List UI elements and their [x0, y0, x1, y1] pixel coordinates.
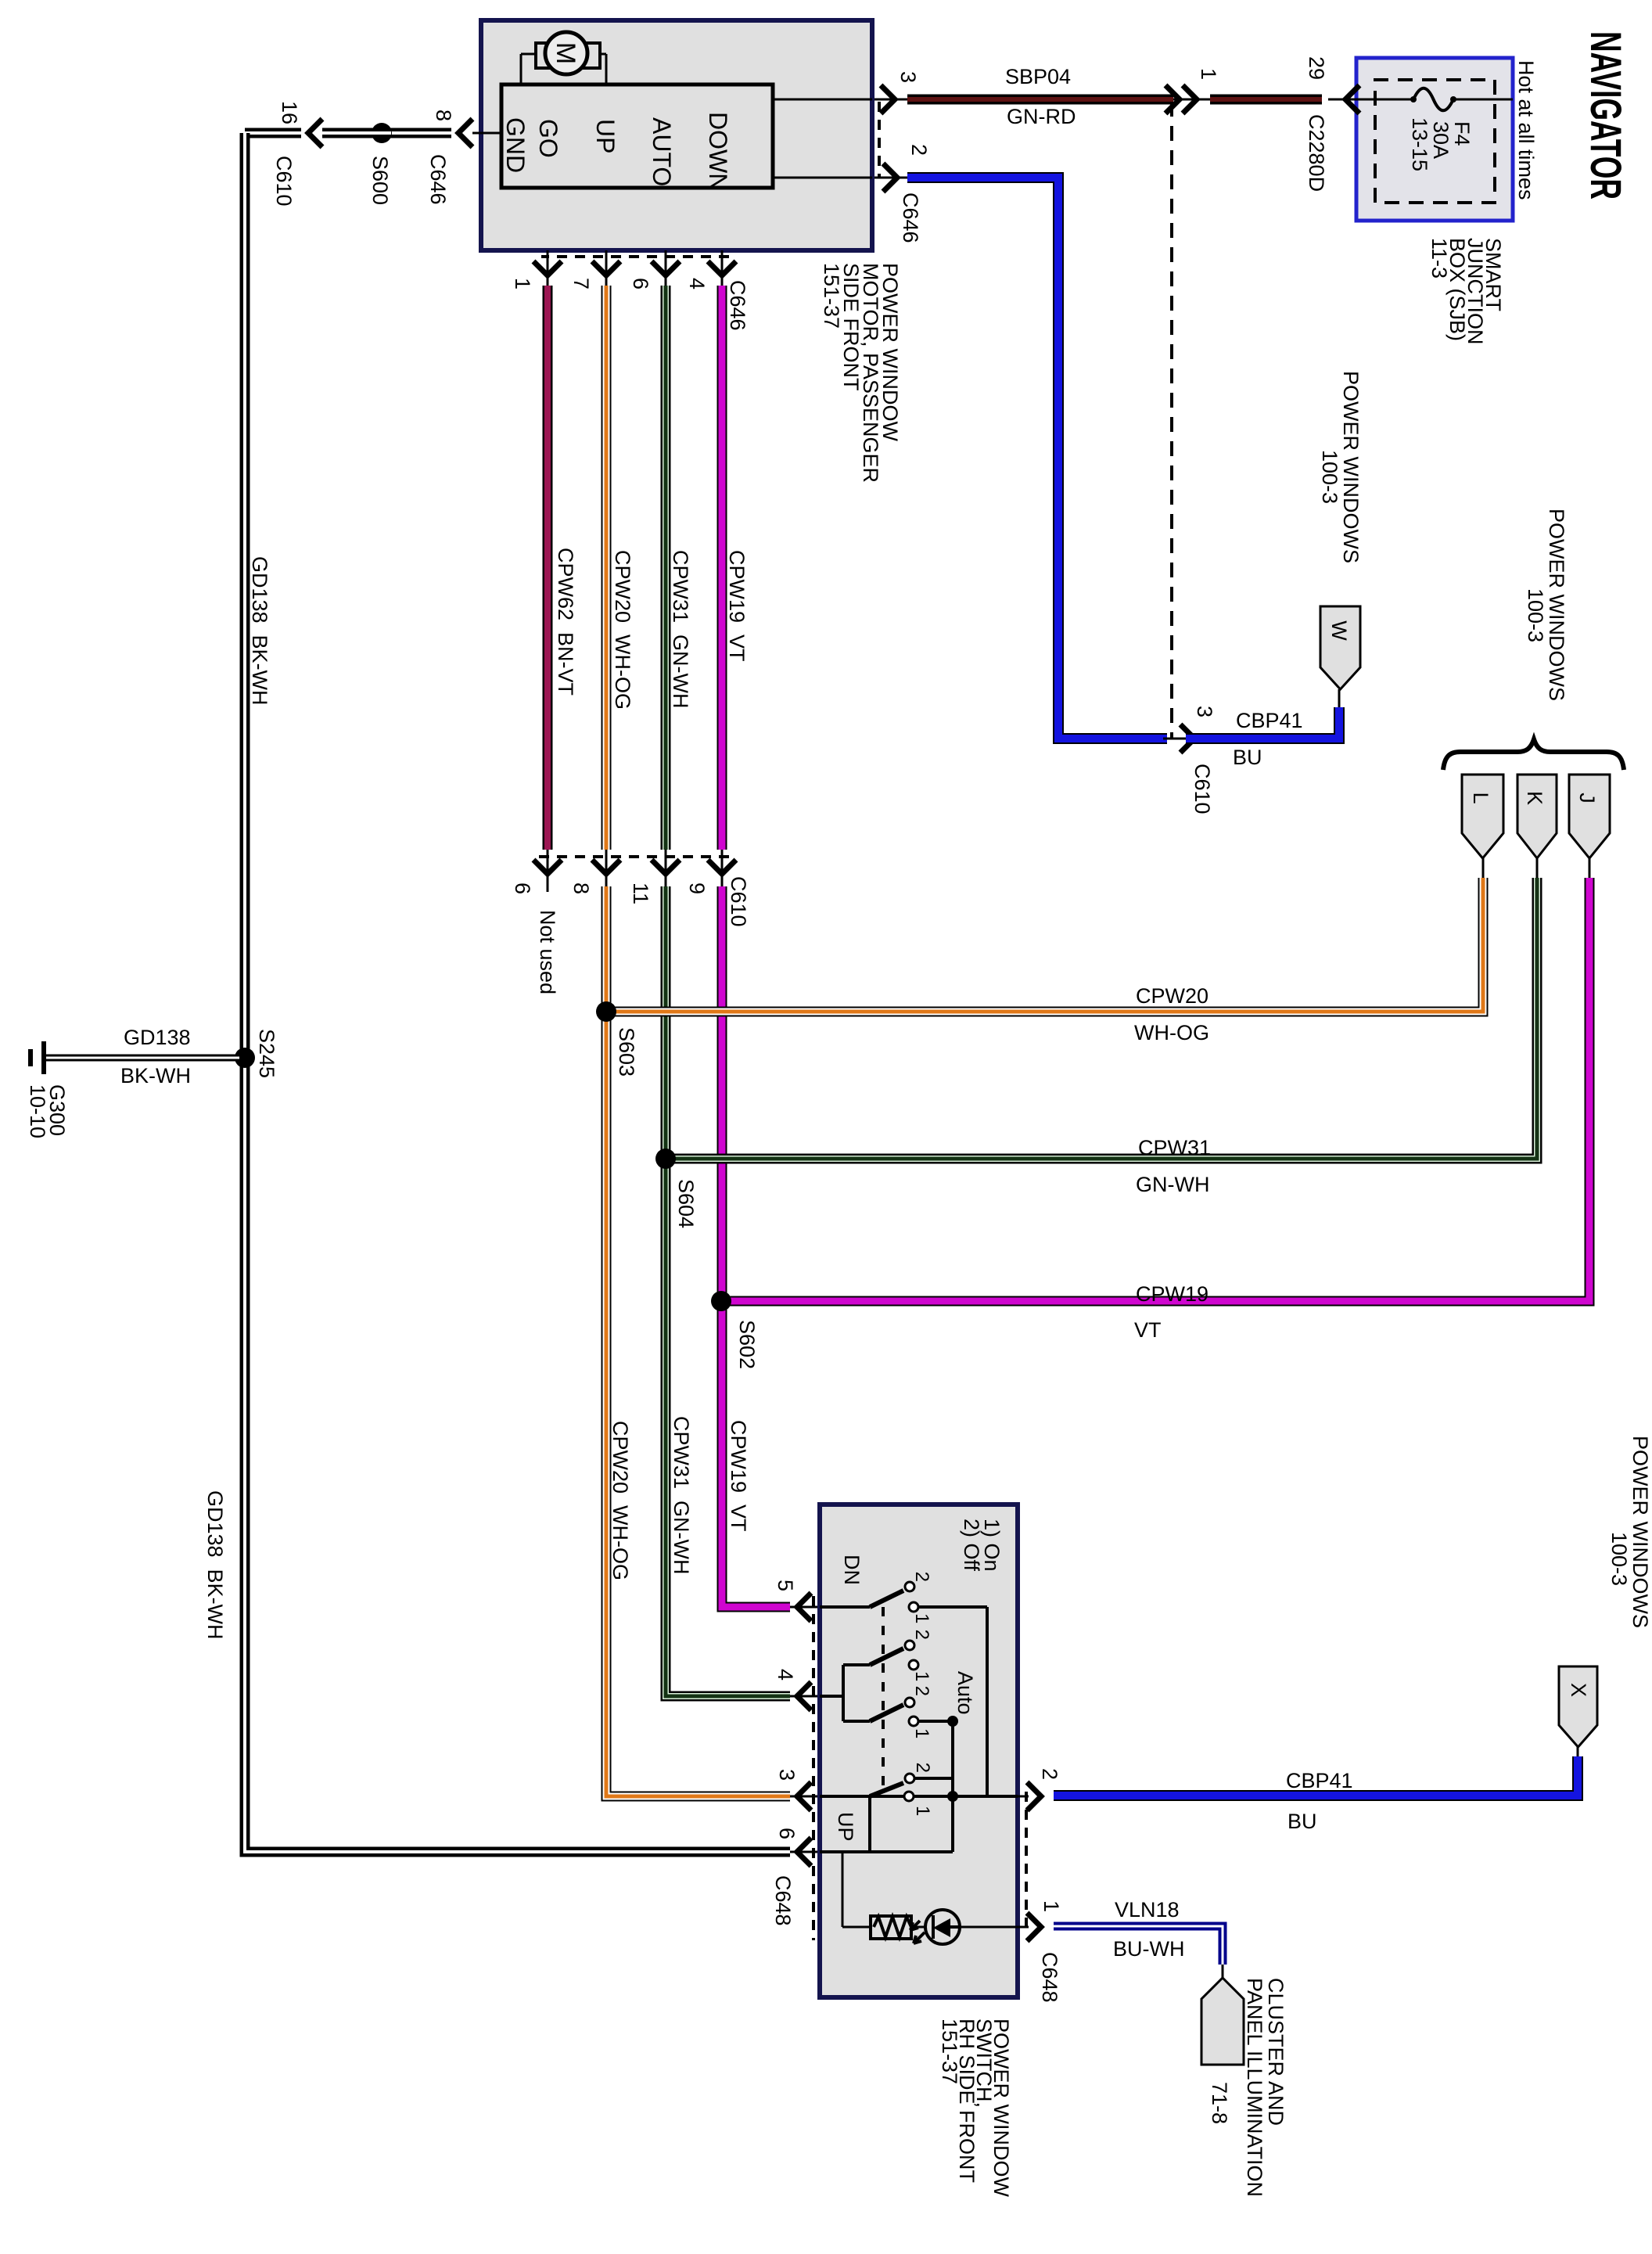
svg-text:S604: S604	[674, 1179, 698, 1228]
svg-text:GD138 BK-WH: GD138 BK-WH	[248, 556, 271, 706]
svg-text:100-3: 100-3	[1524, 588, 1547, 642]
svg-text:UP: UP	[834, 1812, 857, 1842]
svg-text:1: 1	[511, 278, 534, 289]
svg-text:16: 16	[278, 101, 301, 124]
svg-text:S603: S603	[615, 1027, 638, 1077]
svg-text:CPW31 GN-WH: CPW31 GN-WH	[669, 550, 692, 709]
svg-text:CBP41: CBP41	[1236, 709, 1303, 732]
svg-text:BU-WH: BU-WH	[1113, 1937, 1184, 1961]
svg-text:2: 2	[911, 1686, 932, 1696]
svg-text:POWER WINDOWS: POWER WINDOWS	[1545, 509, 1568, 701]
svg-text:C646: C646	[899, 192, 922, 243]
svg-text:8: 8	[432, 110, 455, 121]
svg-text:S602: S602	[735, 1320, 759, 1369]
svg-text:GN-RD: GN-RD	[1007, 105, 1076, 128]
svg-text:Not used: Not used	[536, 910, 559, 994]
svg-text:C646: C646	[726, 280, 749, 331]
svg-text:C610: C610	[727, 876, 750, 927]
svg-text:6: 6	[775, 1828, 799, 1839]
svg-text:100-3: 100-3	[1318, 450, 1341, 504]
svg-text:1: 1	[912, 1806, 933, 1816]
svg-text:K: K	[1523, 791, 1546, 805]
svg-text:CPW19 VT: CPW19 VT	[727, 1420, 750, 1532]
svg-text:GD138 BK-WH: GD138 BK-WH	[203, 1490, 227, 1640]
svg-text:71-8: 71-8	[1208, 2082, 1231, 2124]
svg-text:WH-OG: WH-OG	[1134, 1021, 1209, 1044]
svg-text:2: 2	[911, 1572, 932, 1582]
svg-text:L: L	[1469, 792, 1492, 803]
svg-text:DOWN: DOWN	[704, 112, 732, 191]
svg-text:POWER WINDOWS: POWER WINDOWS	[1339, 371, 1363, 563]
svg-text:1: 1	[1040, 1900, 1063, 1912]
svg-text:BU: BU	[1233, 746, 1262, 769]
svg-text:X: X	[1567, 1683, 1590, 1697]
svg-text:CLUSTER AND: CLUSTER AND	[1264, 1978, 1287, 2126]
svg-text:CPW19: CPW19	[1136, 1282, 1208, 1306]
svg-text:W: W	[1327, 620, 1351, 641]
svg-text:GD138: GD138	[124, 1026, 191, 1049]
svg-text:3: 3	[775, 1769, 799, 1781]
svg-text:Hot at all times: Hot at all times	[1514, 60, 1538, 200]
svg-text:C648: C648	[771, 1875, 795, 1926]
svg-text:S600: S600	[368, 156, 392, 205]
svg-text:11-3: 11-3	[1428, 238, 1451, 279]
svg-text:BK-WH: BK-WH	[120, 1064, 191, 1087]
svg-text:29: 29	[1305, 56, 1328, 80]
svg-text:SBP04: SBP04	[1005, 65, 1071, 88]
svg-text:4: 4	[774, 1669, 797, 1681]
svg-text:1: 1	[911, 1671, 932, 1681]
svg-text:10-10: 10-10	[26, 1084, 49, 1138]
svg-text:3: 3	[1193, 706, 1216, 717]
svg-text:151-37: 151-37	[938, 2019, 961, 2084]
svg-text:CPW20 WH-OG: CPW20 WH-OG	[611, 550, 634, 710]
svg-text:CPW19 VT: CPW19 VT	[725, 550, 749, 662]
svg-text:4: 4	[685, 278, 709, 289]
svg-text:UP: UP	[591, 119, 619, 153]
svg-text:2: 2	[912, 1763, 933, 1773]
svg-text:CPW62 BN-VT: CPW62 BN-VT	[554, 548, 577, 696]
svg-text:M: M	[551, 42, 580, 64]
svg-text:CPW20 WH-OG: CPW20 WH-OG	[609, 1421, 632, 1580]
svg-text:2: 2	[911, 1630, 932, 1640]
svg-text:6: 6	[629, 278, 652, 289]
svg-text:PANEL ILLUMINATION: PANEL ILLUMINATION	[1243, 1978, 1266, 2197]
svg-text:30A: 30A	[1429, 121, 1453, 159]
svg-text:F4: F4	[1450, 121, 1474, 146]
svg-text:CPW31 GN-WH: CPW31 GN-WH	[670, 1416, 693, 1575]
svg-text:S245: S245	[255, 1029, 278, 1078]
svg-text:1: 1	[1197, 68, 1220, 80]
svg-text:AUTO: AUTO	[648, 117, 676, 186]
svg-text:J: J	[1575, 793, 1599, 803]
svg-text:C648: C648	[1038, 1952, 1061, 2003]
svg-text:GN-WH: GN-WH	[1136, 1173, 1209, 1196]
svg-text:C610: C610	[1191, 764, 1214, 814]
svg-text:GND: GND	[501, 117, 530, 173]
svg-text:C2280D: C2280D	[1305, 114, 1328, 192]
svg-text:1: 1	[911, 1728, 932, 1738]
svg-text:POWER WINDOWS: POWER WINDOWS	[1629, 1436, 1652, 1628]
svg-text:3: 3	[896, 71, 920, 83]
svg-text:VT: VT	[1134, 1318, 1162, 1342]
svg-text:C646: C646	[426, 154, 450, 205]
svg-text:11: 11	[629, 883, 652, 904]
svg-text:BU: BU	[1287, 1810, 1317, 1833]
svg-text:CBP41: CBP41	[1286, 1769, 1353, 1792]
svg-text:DN: DN	[840, 1555, 864, 1585]
svg-text:13-15: 13-15	[1408, 117, 1431, 171]
svg-text:2: 2	[1038, 1768, 1061, 1780]
svg-text:7: 7	[569, 278, 593, 289]
svg-text:100-3: 100-3	[1607, 1532, 1631, 1586]
svg-text:9: 9	[685, 883, 709, 894]
svg-text:6: 6	[511, 883, 534, 894]
svg-text:151-37: 151-37	[820, 263, 843, 329]
svg-text:1: 1	[911, 1613, 932, 1623]
svg-text:CPW20: CPW20	[1136, 984, 1208, 1008]
svg-text:Auto: Auto	[953, 1671, 977, 1715]
svg-text:8: 8	[569, 883, 593, 894]
svg-text:C610: C610	[272, 156, 296, 207]
svg-text:VLN18: VLN18	[1115, 1898, 1180, 1921]
svg-text:2: 2	[907, 144, 931, 156]
svg-text:2) Off: 2) Off	[960, 1519, 983, 1572]
svg-text:5: 5	[774, 1580, 797, 1591]
svg-text:CPW31: CPW31	[1138, 1136, 1211, 1159]
svg-text:NAVIGATOR: NAVIGATOR	[1582, 31, 1631, 200]
svg-text:GO: GO	[534, 119, 562, 158]
